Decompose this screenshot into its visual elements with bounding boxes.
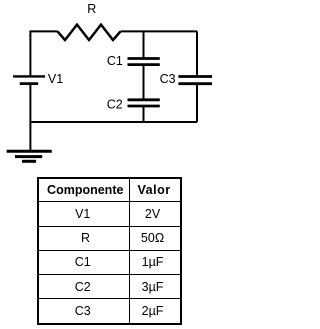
wire: top-left horizontal segment from left corner to resistor [30, 31, 57, 76]
svg-text:C2: C2 [107, 97, 123, 111]
resistor R (zigzag) [58, 25, 121, 40]
component value table [37, 177, 182, 324]
svg-text:C1: C1 [107, 54, 123, 68]
wire: right branch top (top net to C3) [196, 31, 198, 76]
wire: bottom horizontal net [30, 121, 197, 123]
svg-text:C3: C3 [160, 72, 176, 86]
capacitor C3 [178, 77, 212, 84]
wire: battery to ground [29, 85, 31, 151]
svg-text:R: R [87, 2, 96, 16]
ground symbol [7, 151, 52, 161]
battery V1 bottom plate [20, 82, 39, 85]
wire: middle branch top (node to C1) [143, 31, 145, 58]
capacitor C2 [128, 100, 160, 106]
wire: C2 to bottom net [143, 106, 145, 122]
wire: C1 to C2 [143, 65, 145, 100]
battery V1 top plate [13, 75, 45, 77]
wire: C3 to bottom net [196, 84, 198, 122]
wire: resistor to top-right corner [121, 30, 198, 32]
svg-text:V1: V1 [48, 72, 63, 86]
capacitor C1 [128, 59, 160, 65]
